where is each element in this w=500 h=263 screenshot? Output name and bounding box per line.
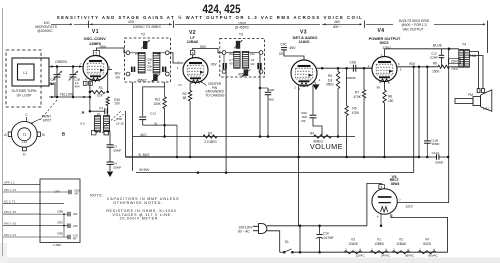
svg-text:VAC OUTPUT: VAC OUTPUT (402, 28, 423, 32)
svg-text:V3: V3 (351, 238, 355, 242)
svg-text:B- BUS: B- BUS (139, 153, 151, 157)
svg-text:@1000KC: @1000KC (37, 29, 53, 33)
svg-text:80: 80 (148, 61, 151, 65)
svg-text:50MF: 50MF (436, 161, 444, 165)
svg-text:NOTE:: NOTE: (90, 194, 104, 198)
svg-text:60 ~ AC: 60 ~ AC (238, 229, 250, 233)
svg-text:220: 220 (279, 52, 285, 56)
svg-text:1: 1 (299, 87, 301, 91)
svg-text:B: B (42, 133, 45, 137)
svg-text:90V: 90V (100, 45, 107, 49)
svg-text:1: 1 (309, 78, 311, 82)
svg-text:1000KC TO 455KC: 1000KC TO 455KC (133, 25, 162, 29)
svg-text:50MF: 50MF (432, 142, 440, 146)
svg-text:R4: R4 (310, 132, 314, 136)
svg-text:R1: R1 (99, 86, 103, 90)
svg-text:6: 6 (398, 62, 400, 66)
svg-text:CRD: CRD (57, 231, 63, 235)
svg-text:.047MF: .047MF (323, 236, 334, 240)
svg-text:A: A (81, 110, 85, 115)
svg-text:40X: 40X (128, 20, 135, 24)
svg-text:46X: 46X (334, 20, 341, 24)
svg-text:T4: T4 (462, 43, 466, 47)
svg-text:2: 2 (294, 86, 296, 90)
svg-text:SENSITIVITY AND STAGE GAINS AT: SENSITIVITY AND STAGE GAINS AT ½ WATT OU… (57, 15, 364, 20)
svg-text:6VOLTS 50C5 GRID: 6VOLTS 50C5 GRID (399, 19, 430, 23)
svg-text:7: 7 (80, 62, 82, 66)
svg-text:1-454: 1-454 (21, 142, 28, 144)
svg-text:120V: 120V (382, 46, 391, 50)
svg-text:20,000/V METER: 20,000/V METER (120, 216, 158, 220)
svg-text:150: 150 (135, 52, 140, 56)
svg-text:CRC: CRC (57, 220, 63, 224)
svg-text:C9B: C9B (268, 88, 274, 92)
svg-text:36VAC: 36VAC (405, 254, 415, 258)
svg-text:150: 150 (388, 99, 394, 103)
svg-text:V4: V4 (425, 238, 429, 242)
svg-text:L5-16: L5-16 (116, 122, 124, 126)
svg-text:50C5: 50C5 (380, 41, 389, 45)
svg-text:85VAC: 85VAC (428, 254, 438, 258)
svg-text:R8: R8 (388, 94, 392, 98)
svg-text:0-15: 0-15 (50, 81, 56, 85)
svg-text:12AV6: 12AV6 (298, 40, 309, 44)
svg-text:@400 ~ FOR 1.3: @400 ~ FOR 1.3 (401, 23, 426, 27)
svg-text:230: 230 (73, 224, 78, 228)
svg-text:121V: 121V (406, 205, 414, 209)
svg-text:R9: R9 (433, 62, 437, 66)
svg-text:L1: L1 (23, 71, 27, 75)
svg-text:GREEN: GREEN (55, 60, 67, 64)
svg-text:L S1: L S1 (483, 107, 490, 111)
svg-text:RED: RED (452, 67, 459, 71)
svg-text:V1: V1 (92, 29, 99, 35)
svg-text:S1: S1 (285, 240, 289, 244)
svg-text:CRA: CRA (54, 189, 60, 193)
svg-text:400 ~: 400 ~ (333, 25, 341, 29)
svg-text:12BA6: 12BA6 (187, 40, 198, 44)
svg-text:90V: 90V (409, 62, 416, 66)
svg-text:4: 4 (388, 81, 390, 85)
svg-text:B: B (62, 132, 65, 137)
svg-text:APP. L.1: APP. L.1 (4, 181, 15, 185)
svg-text:C11A: C11A (432, 151, 440, 155)
svg-text:12BA6: 12BA6 (396, 242, 406, 246)
svg-text:NC 2, T1: NC 2, T1 (4, 200, 16, 204)
svg-text:C10: C10 (323, 232, 329, 236)
svg-text:R6: R6 (352, 107, 356, 111)
svg-text:5: 5 (400, 68, 402, 72)
svg-text:PIN 2, V4: PIN 2, V4 (4, 233, 16, 237)
svg-text:6: 6 (109, 66, 111, 70)
svg-text:1500: 1500 (432, 69, 439, 73)
svg-text:.02MF: .02MF (430, 55, 439, 59)
svg-text:C13: C13 (150, 112, 156, 116)
svg-text:455K: 455K (238, 73, 247, 77)
svg-text:VOLUME: VOLUME (310, 142, 343, 151)
svg-text:MF: MF (75, 192, 79, 195)
svg-text:C8: C8 (251, 58, 255, 62)
svg-text:CRB: CRB (57, 209, 63, 213)
svg-text:80: 80 (230, 62, 233, 66)
svg-text:2: 2 (368, 64, 370, 68)
svg-text:12BE6: 12BE6 (374, 242, 384, 246)
svg-text:PIN 7, V5: PIN 7, V5 (4, 222, 16, 226)
svg-text:TO CHASSIS: TO CHASSIS (205, 93, 224, 97)
svg-text:110: 110 (250, 62, 255, 66)
svg-text:90V: 90V (211, 62, 218, 66)
svg-text:BLUE: BLUE (433, 44, 443, 48)
svg-text:12AV6: 12AV6 (348, 242, 358, 246)
svg-text:R7: R7 (355, 90, 359, 94)
svg-text:470K: 470K (353, 95, 361, 99)
svg-text:455KC: 455KC (137, 78, 148, 82)
svg-text:.05MF: .05MF (113, 166, 122, 170)
svg-text:100: 100 (114, 102, 120, 106)
svg-text:4: 4 (377, 214, 379, 218)
svg-text:V4: V4 (377, 28, 384, 34)
svg-text:@ 455KC: @ 455KC (235, 26, 250, 30)
svg-text:T3: T3 (239, 32, 243, 36)
svg-text:22K: 22K (97, 94, 104, 98)
svg-text:D: D (23, 153, 26, 157)
svg-text:-6V: -6V (115, 75, 121, 79)
svg-text:7: 7 (399, 198, 401, 202)
svg-text:2300: 2300 (451, 59, 458, 63)
svg-text:400: 400 (269, 98, 274, 102)
svg-text:12VAC: 12VAC (355, 254, 365, 258)
svg-text:R11: R11 (155, 97, 161, 101)
svg-text:C6B: C6B (147, 65, 152, 69)
svg-text:YELLOW: YELLOW (60, 92, 75, 96)
svg-text:OTHERWISE NOTED.: OTHERWISE NOTED. (113, 201, 163, 205)
svg-text:PIN 2, V5: PIN 2, V5 (4, 210, 16, 214)
svg-text:PIN 1, V3: PIN 1, V3 (4, 188, 16, 192)
svg-text:.01: .01 (153, 121, 158, 125)
svg-text:T2: T2 (141, 32, 145, 36)
svg-text:-6.0: -6.0 (80, 121, 85, 125)
svg-text:4: 4 (319, 78, 321, 82)
svg-text:R5: R5 (328, 74, 332, 78)
svg-text:68: 68 (183, 96, 187, 100)
svg-text:MF: MF (73, 237, 77, 240)
svg-text:C7: C7 (229, 58, 233, 62)
svg-text:T1: T1 (22, 133, 26, 137)
svg-text:35W4: 35W4 (391, 182, 400, 186)
svg-text:1.25M: 1.25M (53, 243, 61, 247)
svg-text:.7V: .7V (177, 83, 182, 87)
svg-text:110: 110 (147, 68, 152, 72)
svg-text:50C5: 50C5 (423, 242, 431, 246)
svg-text:MEG: MEG (326, 83, 334, 87)
svg-text:OF LOOP: OF LOOP (17, 93, 32, 97)
svg-text:400: 400 (73, 212, 78, 216)
svg-text:B+90V: B+90V (140, 168, 151, 172)
svg-text:150: 150 (156, 52, 161, 56)
svg-text:24VAC: 24VAC (381, 254, 391, 258)
svg-text:6V: 6V (377, 86, 381, 90)
svg-text:V1: V1 (377, 238, 381, 242)
svg-text:C5B: C5B (147, 58, 152, 62)
svg-text:A: A (4, 133, 7, 137)
svg-text:100K: 100K (153, 102, 161, 106)
svg-text:5: 5 (96, 52, 98, 56)
svg-text:470K: 470K (352, 111, 360, 115)
svg-text:1: 1 (177, 66, 179, 70)
svg-text:C: C (25, 113, 28, 117)
svg-text:V2: V2 (399, 238, 403, 242)
svg-text:C9C: C9C (280, 43, 287, 47)
svg-text:45V: 45V (289, 46, 296, 50)
svg-text:MF: MF (301, 119, 306, 123)
svg-text:C9D: C9D (349, 61, 356, 65)
svg-text:.05MF: .05MF (113, 148, 122, 152)
svg-text:SPOT: SPOT (43, 118, 52, 122)
svg-text:C2: C2 (99, 106, 103, 110)
svg-text:PM: PM (468, 93, 473, 97)
svg-text:454: 454 (74, 84, 79, 88)
svg-text:2.2 MEG: 2.2 MEG (204, 140, 217, 144)
